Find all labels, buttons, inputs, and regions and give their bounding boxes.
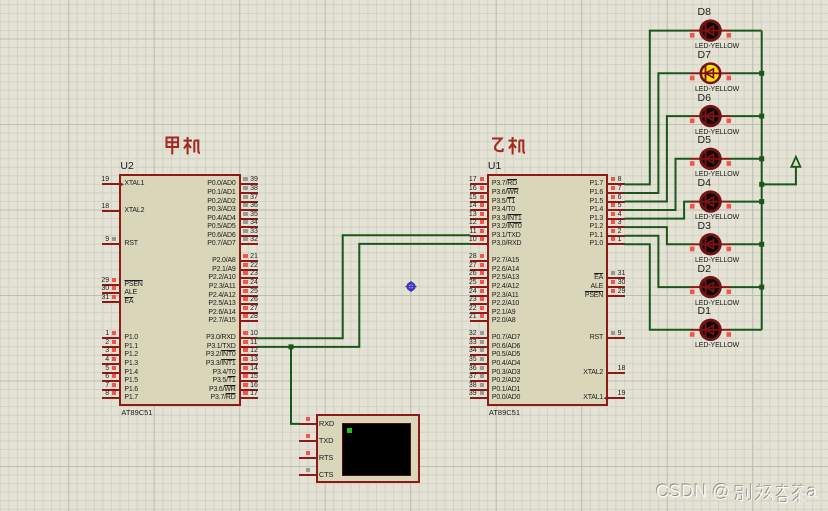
- svg-text:CSDN @: CSDN @: [656, 482, 730, 502]
- U1 pin name RST: [590, 334, 603, 342]
- U1 pin name P3.6/WR: [492, 189, 519, 197]
- U1 pin name P1.2: [590, 223, 604, 231]
- U1 pin name EA: [594, 274, 603, 282]
- U2 pin 14 P3.4/T0: [0, 0, 828, 1]
- U2 pin 8 P1.7: [0, 0, 828, 1]
- U1 pin name P2.5/A13: [492, 274, 519, 282]
- LED D2 (LED-YELLOW): [690, 277, 731, 296]
- watermark CSDN @bie-fang-xiang-cai-a: [655, 481, 825, 505]
- U2 pin 34 P0.5/AD5: [0, 0, 828, 1]
- U2 XTAL1 pin-end marker: [119, 182, 124, 187]
- label D8: [698, 7, 711, 18]
- U2 pin name P0.7/AD7: [207, 240, 235, 248]
- U2 pin 3 P1.2: [0, 0, 828, 1]
- label D3: [698, 221, 711, 232]
- U2 pin name P2.7/A15: [208, 317, 235, 325]
- U1 pin name P1.5: [590, 198, 604, 206]
- U2 pin name P0.3/AD3: [207, 206, 235, 214]
- U1 pin 30 ALE: [0, 0, 828, 1]
- U2 reference label: [120, 161, 133, 172]
- U2 pin name P3.0/RXD: [206, 334, 236, 342]
- origin marker: [406, 281, 417, 292]
- U2 value label AT89C51: [121, 409, 152, 417]
- terminal screen: [342, 423, 411, 475]
- wire U1 P1.7 to LED D8: [625, 31, 692, 185]
- label JIA-JI (machine A): [164, 136, 202, 156]
- junction bus at D2: [759, 285, 764, 290]
- U2 pin name P0.0/AD0: [207, 180, 235, 188]
- U1 pin name P2.2/A10: [492, 300, 519, 308]
- label LED-YELLOW for D3: [695, 257, 739, 264]
- U1 pin name P0.0/AD0: [492, 394, 520, 402]
- U1 pin 16 P3.6/WR: [0, 0, 828, 1]
- U2 pin 35 P0.4/AD4: [0, 0, 828, 1]
- wire U1 P1.5 to LED D6: [625, 116, 692, 201]
- U2 pin 29 PSEN: [0, 0, 828, 1]
- label D5: [698, 135, 711, 146]
- U1 pin name P0.6/AD6: [492, 343, 520, 351]
- LED D6 (LED-YELLOW): [690, 106, 731, 125]
- U1 pin name P3.4/T0: [492, 206, 515, 214]
- U1 pin 39 P0.0/AD0: [0, 0, 828, 1]
- LED D4 (LED-YELLOW): [690, 192, 731, 211]
- label D4: [698, 178, 711, 189]
- U1 pin 38 P0.1/AD1: [0, 0, 828, 1]
- label D1: [698, 306, 711, 317]
- wire LED D2 to bus: [730, 286, 762, 288]
- U2 pin 38 P0.1/AD1: [0, 0, 828, 1]
- U1 pin 21 P2.0/A8: [0, 0, 828, 1]
- virtual terminal instrument: [316, 414, 421, 483]
- U1 pin 27 P2.6/A14: [0, 0, 828, 1]
- microcontroller U2 AT89C51 body: [119, 174, 240, 406]
- U1 pin name P1.4: [590, 206, 604, 214]
- U1 pin name P2.4/A12: [492, 283, 519, 291]
- label LED-YELLOW for D8: [695, 43, 739, 50]
- terminal pin RTS: [0, 0, 828, 1]
- U2 pin name PSEN: [124, 281, 142, 289]
- U2 pin 24 P2.3/A11: [0, 0, 828, 1]
- U2 pin name P0.1/AD1: [207, 189, 235, 197]
- U2 pin name P3.5/T1: [212, 377, 235, 385]
- U2 pin 9 RST: [0, 0, 828, 1]
- label LED-YELLOW for D5: [695, 171, 739, 178]
- U1 pin 13 P3.3/INT1: [0, 0, 828, 1]
- U1 pin name P3.5/T1: [492, 198, 515, 206]
- U2 pin name XTAL1: [124, 180, 144, 188]
- wire LED D5 to bus: [730, 158, 762, 160]
- U2 pin name P0.4/AD4: [207, 215, 235, 223]
- U1 pin name XTAL1: [583, 394, 603, 402]
- junction bus at D4: [759, 199, 764, 204]
- U1 pin 15 P3.5/T1: [0, 0, 828, 1]
- U1 pin 3 P1.2: [0, 0, 828, 1]
- U2 pin 17 P3.7/RD: [0, 0, 828, 1]
- U2 pin 25 P2.4/A12: [0, 0, 828, 1]
- U1 pin name XTAL2: [583, 369, 603, 377]
- U2 pin 21 P2.0/A8: [0, 0, 828, 1]
- U2 pin name ALE: [124, 289, 137, 297]
- terminal pin RXD: [0, 0, 828, 1]
- U1 pin 7 P1.6: [0, 0, 828, 1]
- U1 pin name P3.1/TXD: [492, 232, 521, 240]
- power terminal (VCC arrow): [791, 157, 800, 167]
- wire U1 P1.6 to LED D7: [625, 73, 692, 193]
- U2 pin name XTAL2: [124, 207, 144, 215]
- U1 pin 28 P2.7/A15: [0, 0, 828, 1]
- U1 pin 34 P0.5/AD5: [0, 0, 828, 1]
- U1 pin name P1.3: [590, 215, 604, 223]
- label LED-YELLOW for D4: [695, 214, 739, 221]
- U2 pin 4 P1.3: [0, 0, 828, 1]
- label YI-JI (machine B): [489, 136, 527, 156]
- U1 pin 2 P1.1: [0, 0, 828, 1]
- U2 pin name P1.0: [124, 334, 138, 342]
- junction bus at D5: [759, 156, 764, 161]
- U2 pin 26 P2.5/A13: [0, 0, 828, 1]
- U2 pin 37 P0.2/AD2: [0, 0, 828, 1]
- wire U1 P1.0 to LED D1: [625, 244, 692, 330]
- U2 pin name P2.3/A11: [209, 283, 236, 291]
- U2 pin name P3.6/WR: [209, 386, 236, 394]
- U1 pin 32 P0.7/AD7: [0, 0, 828, 1]
- U2 pin 18 XTAL2: [0, 0, 828, 1]
- U1 pin 1 P1.0: [0, 0, 828, 1]
- wire U2 P3.0/RXD to U1 P3.1/TXD: [257, 235, 470, 338]
- microcontroller U1 AT89C51 body: [487, 174, 608, 406]
- junction bus at D3: [759, 242, 764, 247]
- U1 pin 4 P1.3: [0, 0, 828, 1]
- U1 pin 26 P2.5/A13: [0, 0, 828, 1]
- U2 pin name P3.4/T0: [212, 369, 235, 377]
- U2 pin name P2.2/A10: [208, 274, 235, 282]
- wire U1 P1.2 to LED D3: [625, 227, 692, 244]
- terminal pin TXD: [0, 0, 828, 1]
- U2 pin 16 P3.6/WR: [0, 0, 828, 1]
- U1 pin name P0.1/AD1: [492, 386, 520, 394]
- U2 pin name RST: [124, 240, 137, 248]
- U1 pin 25 P2.4/A12: [0, 0, 828, 1]
- U2 pin 36 P0.3/AD3: [0, 0, 828, 1]
- U2 pin name P3.7/RD: [211, 394, 236, 402]
- U1 pin 5 P1.4: [0, 0, 828, 1]
- U1 pin name P0.7/AD7: [492, 334, 520, 342]
- label D7: [698, 50, 711, 61]
- junction bus power junction: [759, 182, 764, 187]
- U2 pin name P2.5/A13: [208, 300, 235, 308]
- U1 pin 18 XTAL2: [0, 0, 828, 1]
- label D2: [698, 264, 711, 275]
- U1 pin name P2.7/A15: [492, 257, 519, 265]
- label LED-YELLOW for D1: [695, 342, 739, 349]
- U2 pin 28 P2.7/A15: [0, 0, 828, 1]
- U2 pin 33 P0.6/AD6: [0, 0, 828, 1]
- U2 pin 19 XTAL1: [0, 0, 828, 1]
- LED D5 (LED-YELLOW): [690, 149, 731, 168]
- U2 pin name P1.3: [124, 360, 138, 368]
- U1 pin name P1.7: [590, 180, 604, 188]
- U1 pin 23 P2.2/A10: [0, 0, 828, 1]
- U2 pin 1 P1.0: [0, 0, 828, 1]
- U1 pin name P1.1: [590, 232, 604, 240]
- U2 pin name P1.5: [124, 377, 138, 385]
- U1 pin name P1.6: [590, 189, 604, 197]
- U1 pin 37 P0.2/AD2: [0, 0, 828, 1]
- label D6: [698, 93, 711, 104]
- U2 pin name P2.6/A14: [208, 309, 235, 317]
- U1 pin 14 P3.4/T0: [0, 0, 828, 1]
- U2 pin 15 P3.5/T1: [0, 0, 828, 1]
- U2 pin name EA: [124, 298, 133, 306]
- U1 pin name ALE: [590, 283, 603, 291]
- U1 XTAL1 pin-end marker: [604, 396, 609, 401]
- U2 pin 23 P2.2/A10: [0, 0, 828, 1]
- U2 pin name P0.5/AD5: [207, 223, 235, 231]
- U2 pin name P1.6: [124, 386, 138, 394]
- U1 pin 36 P0.3/AD3: [0, 0, 828, 1]
- U1 pin 24 P2.3/A11: [0, 0, 828, 1]
- LED D7 (LED-YELLOW, lit): [690, 64, 731, 83]
- LED D3 (LED-YELLOW): [690, 235, 731, 254]
- U1 pin name P3.2/INT0: [492, 223, 522, 231]
- label LED-YELLOW for D7: [695, 86, 739, 93]
- U1 pin name PSEN: [585, 292, 603, 300]
- U2 pin 7 P1.6: [0, 0, 828, 1]
- U1 pin 8 P1.7: [0, 0, 828, 1]
- U2 pin 5 P1.4: [0, 0, 828, 1]
- label LED-YELLOW for D2: [695, 300, 739, 307]
- U1 pin 6 P1.5: [0, 0, 828, 1]
- terminal cursor: [347, 428, 352, 433]
- wire LED common bus: [761, 31, 763, 330]
- LED D8 (LED-YELLOW): [690, 21, 731, 40]
- terminal pin CTS: [0, 0, 828, 1]
- U2 pin name P1.1: [124, 343, 138, 351]
- label LED-YELLOW for D6: [695, 129, 739, 136]
- wire LED D4 to bus: [730, 201, 762, 203]
- U2 pin 12 P3.2/INT0: [0, 0, 828, 1]
- U1 pin 19 XTAL1: [0, 0, 828, 1]
- U2 pin name P1.7: [124, 394, 138, 402]
- wire LED D3 to bus: [730, 243, 762, 245]
- U1 pin name P2.0/A8: [492, 317, 516, 325]
- U1 pin 11 P3.1/TXD: [0, 0, 828, 1]
- U1 pin 12 P3.2/INT0: [0, 0, 828, 1]
- U1 pin 35 P0.4/AD4: [0, 0, 828, 1]
- U2 pin 27 P2.6/A14: [0, 0, 828, 1]
- wire LED D1 to bus: [730, 329, 762, 331]
- U2 pin 13 P3.3/INT1: [0, 0, 828, 1]
- U1 pin name P0.3/AD3: [492, 369, 520, 377]
- junction bus at D7: [759, 71, 764, 76]
- junction bus at D6: [759, 114, 764, 119]
- U1 value label AT89C51: [489, 409, 520, 417]
- U2 pin 11 P3.1/TXD: [0, 0, 828, 1]
- U1 pin 29 PSEN: [0, 0, 828, 1]
- wire U1 P1.3 to LED D4: [625, 202, 692, 219]
- U2 pin name P0.2/AD2: [207, 198, 235, 206]
- U1 reference label: [488, 161, 501, 172]
- U1 pin name P2.6/A14: [492, 266, 519, 274]
- U2 pin name P2.1/A9: [212, 266, 236, 274]
- U1 pin name P0.4/AD4: [492, 360, 520, 368]
- U1 pin 17 P3.7/RD: [0, 0, 828, 1]
- U1 pin 31 EA: [0, 0, 828, 1]
- U2 pin 10 P3.0/RXD: [0, 0, 828, 1]
- U2 pin name P3.3/INT1: [206, 360, 236, 368]
- U1 pin 10 P3.0/RXD: [0, 0, 828, 1]
- U2 pin 39 P0.0/AD0: [0, 0, 828, 1]
- U2 pin name P3.1/TXD: [207, 343, 236, 351]
- U2 pin 30 ALE: [0, 0, 828, 1]
- U1 pin 33 P0.6/AD6: [0, 0, 828, 1]
- wire U1 P1.1 to LED D2: [625, 236, 692, 287]
- wire bus to power terminal: [762, 167, 796, 185]
- U1 pin name P1.0: [590, 240, 604, 248]
- LED D1 (LED-YELLOW): [690, 320, 731, 339]
- U2 pin name P2.4/A12: [208, 292, 235, 300]
- U2 pin 32 P0.7/AD7: [0, 0, 828, 1]
- wire U1 P1.4 to LED D5: [625, 159, 692, 210]
- wire LED D7 to bus: [730, 72, 762, 74]
- U1 pin name P3.7/RD: [492, 180, 517, 188]
- U2 pin name P2.0/A8: [212, 257, 236, 265]
- U1 pin name P0.2/AD2: [492, 377, 520, 385]
- junction TXD-branch junction: [289, 344, 294, 349]
- wire LED D8 to bus: [730, 30, 762, 32]
- U2 pin 2 P1.1: [0, 0, 828, 1]
- U1 pin name P3.0/RXD: [492, 240, 522, 248]
- U2 pin 22 P2.1/A9: [0, 0, 828, 1]
- U2 pin name P3.2/INT0: [206, 351, 236, 359]
- svg-text:a: a: [807, 482, 818, 502]
- U1 pin 9 RST: [0, 0, 828, 1]
- U1 pin name P0.5/AD5: [492, 351, 520, 359]
- U1 pin 22 P2.1/A9: [0, 0, 828, 1]
- wire LED D6 to bus: [730, 115, 762, 117]
- U2 pin 6 P1.5: [0, 0, 828, 1]
- U2 pin name P1.4: [124, 369, 138, 377]
- wire U2 P3.1/TXD to U1 P3.0/RXD: [257, 244, 470, 347]
- U2 pin name P1.2: [124, 351, 138, 359]
- wire U2 TXD branch to terminal RXD: [291, 347, 299, 424]
- U1 pin name P2.3/A11: [492, 292, 519, 300]
- U1 pin name P3.3/INT1: [492, 215, 522, 223]
- U1 pin name P2.1/A9: [492, 309, 516, 317]
- U2 pin 31 EA: [0, 0, 828, 1]
- U2 pin name P0.6/AD6: [207, 232, 235, 240]
